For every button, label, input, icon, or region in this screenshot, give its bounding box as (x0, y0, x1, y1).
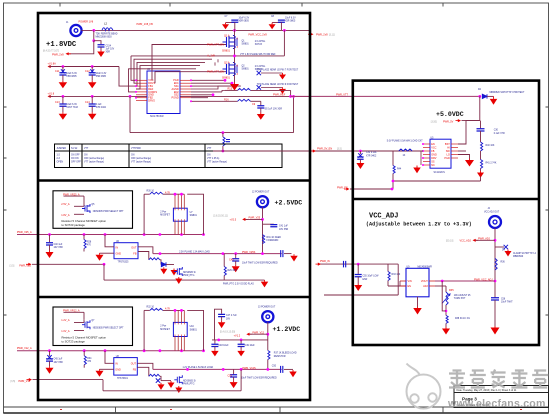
wire - ADJ enable entry (324, 294, 398, 296)
svg-text:SC1175CSW: SC1175CSW (150, 116, 164, 118)
wire - VTT_REF crossing to right column (291, 95, 480, 97)
resistor R29 (223, 254, 225, 267)
svg-text:FB: FB (133, 368, 137, 371)
wire - 1.2V input rail (17, 350, 204, 352)
svg-text:(Adjustable between 1.2V to +3: (Adjustable between 1.2V to +3.3V) (366, 222, 472, 228)
ground - U9 (417, 297, 419, 307)
svg-text:X7R 0402: X7R 0402 (366, 155, 377, 157)
wire - 1.2V output plane (153, 368, 282, 370)
svg-text:VTT (active Range): VTT (active Range) (207, 161, 227, 164)
svg-text:ON OFF: ON OFF (71, 155, 80, 157)
pin U9 VIN (400, 280, 406, 282)
svg-text:RESISTOR: RESISTOR (274, 356, 286, 358)
capacitor C32 (359, 151, 361, 154)
svg-text:R35: R35 (449, 289, 454, 292)
svg-text:1uF 10V: 1uF 10V (106, 49, 115, 51)
pin U9 ADJ (429, 285, 435, 287)
resistor R27 (149, 258, 160, 260)
capacitor C11 (62, 67, 64, 73)
svg-text:+2.5VDC: +2.5VDC (275, 199, 303, 206)
off-page connector PWR_1V8 (right) (310, 33, 313, 36)
ground - output (1.2V) (292, 370, 294, 372)
svg-text:VCC_ADJ: VCC_ADJ (460, 240, 472, 243)
svg-text:PWR_5V_EN: PWR_5V_EN (317, 147, 332, 150)
ground - C12 (91, 81, 93, 83)
svg-text:TANT 7343: TANT 7343 (66, 106, 78, 109)
svg-text:VTT: VTT (207, 148, 212, 150)
svg-text:TP2 PLACE NEAR U2 PIN 9 FOR TE: TP2 PLACE NEAR U2 PIN 9 FOR TEST (257, 83, 299, 86)
pin U10 top (181, 310, 183, 322)
svg-text:1.2V PLANE 1.5A MAX LOAD: 1.2V PLANE 1.5A MAX LOAD (183, 366, 214, 369)
svg-text:5.0V PLANE 0.5A MAX LOAD CKT: 5.0V PLANE 0.5A MAX LOAD CKT (387, 139, 423, 142)
wire - aux vertical links (217, 59, 219, 62)
pin U5 left 5 (423, 157, 430, 159)
svg-text:10uF TANT: 10uF TANT (501, 301, 513, 304)
svg-text:PWR_V12_A: PWR_V12_A (17, 347, 32, 350)
title block (454, 386, 549, 408)
pin U10 bottom (174, 337, 176, 351)
voltage regulator U9 MIC49300 (406, 268, 429, 297)
junction - MOSFET trunk tap (233, 29, 236, 32)
capacitor C50 (series) (281, 366, 283, 373)
resistor R38 (149, 374, 160, 376)
svg-text:SI9801: SI9801 (222, 76, 231, 79)
svg-text:Si9801: Si9801 (242, 68, 250, 70)
svg-text:0.1uF X7R: 0.1uF X7R (494, 133, 505, 135)
wire - sense return loop (1.2V) (33, 379, 104, 381)
ground - C40 (49, 251, 51, 253)
pin 3 U2 left (136, 85, 147, 87)
pin U10 bottom (177, 337, 179, 351)
pin U7 bottom (181, 221, 183, 234)
svg-text:J2 POWER OUT: J2 POWER OUT (252, 192, 270, 194)
wire - MOSFET trunk (234, 30, 236, 82)
node +V1.8A rail (48, 65, 51, 68)
pin U5 left 1 (423, 143, 430, 145)
pin U9 VOUT (429, 280, 435, 282)
wire - gate drive 1 (152, 45, 226, 81)
svg-text:TURN POT: TURN POT (454, 298, 466, 300)
wire - drop to C154 branch (93, 30, 95, 40)
svg-text:+1.2VDC: +1.2VDC (273, 326, 301, 333)
svg-text:R33 100: R33 100 (392, 274, 401, 276)
svg-text:[3,11]: [3,11] (329, 33, 335, 36)
resistor R41 (481, 160, 483, 169)
wire - U2 right pin nets (191, 79, 225, 81)
svg-text:OFF (active Range): OFF (active Range) (84, 157, 104, 160)
diode D4 clamp (495, 246, 504, 248)
pin U7 top (183, 194, 185, 208)
svg-text:www.elecfans.com: www.elecfans.com (447, 398, 546, 410)
svg-text:PWR_VTT: PWR_VTT (336, 93, 348, 96)
svg-text:VIN: VIN (408, 280, 412, 283)
svg-text:L2: L2 (104, 21, 108, 25)
wire - +V1.8 feed to loop (129, 95, 132, 98)
pin U5 right 11 (451, 154, 458, 156)
svg-text:2 N-CHNL: 2 N-CHNL (255, 41, 266, 43)
svg-text:10K ADJUST 25: 10K ADJUST 25 (454, 294, 471, 297)
svg-text:NDS0605 Si: NDS0605 Si (183, 272, 196, 274)
ground - R35/R38 (445, 327, 447, 329)
svg-text:VCC_ADJ: VCC_ADJ (369, 213, 398, 221)
ground - output (293, 254, 295, 256)
ground - C43 (235, 265, 237, 267)
capacitor C14 (91, 96, 93, 103)
svg-text:+V1.8A: +V1.8A (48, 62, 57, 65)
diode D5 (161, 262, 166, 266)
ground - C9 (260, 113, 262, 115)
pin 10 U2 right (180, 82, 191, 84)
option box - resistor/MOSFET option (53, 191, 133, 229)
svg-text:ON: ON (131, 155, 135, 157)
svg-text:PWR_PTG: PWR_PTG (183, 275, 195, 277)
svg-text:[3,5]: [3,5] (10, 264, 15, 267)
wire - VOUT rail (435, 280, 495, 282)
wire - J4 drop (494, 228, 496, 298)
svg-text:JUMPER: JUMPER (57, 148, 67, 150)
svg-text:PWR_IN: PWR_IN (320, 260, 330, 263)
svg-text:[5,4,6,9,10,50]: [5,4,6,9,10,50] (220, 331, 236, 334)
svg-text:C14: C14 (85, 101, 90, 104)
ground - U5 right (469, 159, 471, 161)
svg-text:C40 1uF: C40 1uF (54, 244, 63, 246)
svg-text:VTT (active Range): VTT (active Range) (131, 161, 151, 164)
wire bundle - U2 left pins up (131, 56, 136, 80)
svg-text:PWR_PTG: PWR_PTG (183, 384, 195, 386)
svg-text:SOT23: SOT23 (255, 44, 263, 46)
svg-text:R28: R28 (87, 242, 92, 244)
svg-text:2.5V PLANE 1.3A MAX LOAD: 2.5V PLANE 1.3A MAX LOAD (179, 251, 210, 254)
ground - D2 (493, 96, 495, 99)
ground - U6 (100, 252, 115, 254)
svg-text:[3,8,33,50,11]: [3,8,33,50,11] (213, 215, 228, 218)
wire - VTT plane net (131, 55, 284, 57)
svg-text:PWR_V25S: PWR_V25S (242, 251, 256, 254)
resistor R31 (bleed) (263, 235, 265, 244)
resistor R16 (238, 99, 251, 101)
pin 1 U2 left (136, 79, 147, 81)
svg-text:16V: 16V (226, 318, 231, 320)
svg-text:POWER 1V8: POWER 1V8 (79, 20, 94, 23)
ground - U5 (416, 166, 418, 168)
svg-text:Si9801: Si9801 (190, 215, 198, 217)
svg-text:OUT: OUT (131, 247, 137, 250)
table - voltage option settings (55, 144, 283, 168)
connector J2 +2.5VDC output (257, 196, 268, 207)
svg-text:R30 10: R30 10 (147, 190, 155, 192)
capacitor C52 (233, 369, 235, 374)
op-amp U7 dual MOSFET pack (173, 208, 187, 221)
capacitor C40 (49, 235, 51, 243)
wire - U8 FB (137, 367, 149, 376)
wire - VTT_REF net to right column (290, 90, 292, 96)
svg-text:A_1V8: A_1V8 (207, 55, 215, 58)
svg-text:to SOT23 package: to SOT23 package (62, 223, 86, 227)
svg-text:C45 1uF: C45 1uF (54, 359, 63, 361)
svg-text:VOUT: VOUT (421, 280, 428, 283)
svg-text:R29 49.9: R29 49.9 (228, 270, 238, 272)
svg-text:X5R 0805: X5R 0805 (66, 76, 77, 78)
svg-text:VTT (active Range): VTT (active Range) (84, 161, 104, 164)
svg-text:IN: IN (115, 362, 118, 365)
wire - gate drive 2 (155, 72, 226, 84)
pin U10 bottom (181, 337, 183, 351)
watermark - chinese characters (449, 370, 548, 388)
pin U5 right 10 (451, 150, 458, 152)
svg-text:[50,10]: [50,10] (446, 240, 454, 243)
svg-text:R16: R16 (224, 99, 229, 102)
svg-text:C55 10uF LOW: C55 10uF LOW (363, 276, 380, 278)
svg-text:+V1.8: +V1.8 (48, 92, 55, 95)
pin U10 top (177, 310, 179, 322)
svg-text:C56: C56 (501, 299, 506, 301)
capacitor C44 (series) (281, 250, 283, 257)
svg-text:TPS76301: TPS76301 (117, 378, 129, 380)
ground - U8 (100, 368, 114, 370)
block border - right column (353, 81, 539, 345)
ground - C14 (91, 112, 93, 114)
option box - resistor/MOSFET option (1.2V) (53, 307, 133, 346)
svg-text:R38 30.1K 1%: R38 30.1K 1% (455, 318, 470, 320)
wire - 5V enable feed from block1 (213, 150, 423, 152)
svg-text:OUT: OUT (131, 362, 137, 365)
svg-text:GND: GND (115, 368, 121, 371)
svg-text:Q1 A: Q1 A (224, 34, 230, 37)
svg-text:10uF TANT LOW ESR REQUIRED: 10uF TANT LOW ESR REQUIRED (242, 261, 278, 264)
svg-text:Date: Tuesday, May 27, 20: Date: Tuesday, May 27, 2003 | Rev 1.0 | … (457, 389, 517, 392)
pin U7 bottom (177, 221, 179, 234)
pin U10 top (174, 310, 176, 322)
svg-text:SC1102CS: SC1102CS (434, 172, 446, 174)
wire - divider link (442, 281, 446, 311)
ground - Q6 (178, 277, 180, 279)
pin U5 right 12 (451, 157, 458, 159)
pin 15 U2 right (180, 97, 191, 99)
wire - 2.5V output plane (153, 253, 282, 255)
svg-text:PWR_1V8: PWR_1V8 (316, 33, 328, 36)
connector J1 (power input) (70, 25, 81, 36)
svg-text:10uF 6.3V: 10uF 6.3V (96, 73, 107, 75)
svg-text:PWR_ADJ: PWR_ADJ (478, 238, 491, 241)
svg-text:OFF OFF: OFF OFF (71, 162, 81, 164)
resistor R36 (495, 258, 497, 270)
svg-text:MBR0520 SCHOTTKY PROTECT: MBR0520 SCHOTTKY PROTECT (490, 92, 526, 94)
svg-text:MMZ1608 0603: MMZ1608 0603 (96, 37, 113, 39)
resistor R43 (399, 149, 413, 151)
ground - C48 (214, 349, 216, 351)
pin U5 right 9 (451, 147, 458, 149)
resistor R38 lower divider (446, 315, 448, 323)
junction - cap B tap (283, 29, 286, 32)
svg-text:R37 1K BLEED LOAD: R37 1K BLEED LOAD (274, 352, 297, 355)
ground - D4 (507, 250, 509, 252)
svg-text:10uF 6.3V: 10uF 6.3V (285, 18, 296, 20)
ground - C13 (62, 112, 64, 114)
svg-text:PWR_1V8: PWR_1V8 (52, 54, 64, 57)
pin U7 bottom (174, 221, 176, 234)
voltage regulator U6 TPS76325 (114, 243, 138, 259)
svg-text:J3 POWER OUT: J3 POWER OUT (258, 307, 276, 309)
svg-text:NDS0605 PWR SELECT OPT: NDS0605 PWR SELECT OPT (93, 211, 124, 213)
svg-text:OFF (active Range): OFF (active Range) (131, 157, 151, 160)
pin U5 left 3 (423, 150, 430, 152)
transistor Q5 (option) (82, 204, 90, 213)
potentiometer R35 (446, 292, 448, 305)
junction - bead output (92, 29, 95, 32)
svg-text:OPEN: OPEN (57, 162, 64, 164)
svg-text:TDK FERRITE BEAD: TDK FERRITE BEAD (96, 33, 118, 36)
svg-text:C49 10uF: C49 10uF (245, 345, 256, 347)
svg-text:C30: C30 (494, 130, 499, 132)
svg-text:U10: U10 (190, 326, 195, 328)
svg-text:PGD: PGD (444, 157, 450, 160)
wire - J3 drop with R37 (267, 322, 269, 350)
svg-text:4.7K: 4.7K (165, 192, 170, 195)
svg-text:4.7K: 4.7K (165, 308, 170, 311)
svg-text:1K: 1K (403, 155, 406, 157)
svg-text:X5R 0805: X5R 0805 (96, 76, 107, 78)
ground - D6 (160, 383, 162, 385)
pin U10 bottom (183, 337, 185, 351)
transistor Q2 dual MOSFET (223, 62, 238, 76)
resistor R15 (238, 88, 251, 90)
ground - J4 chain (494, 326, 496, 328)
capacitor C48 (214, 340, 216, 344)
wire - VIN feed (399, 281, 401, 286)
svg-text:to SOT23 package: to SOT23 package (62, 339, 86, 343)
wire - sense return loop (32, 263, 104, 265)
svg-text:PWR_VTT_EN: PWR_VTT_EN (207, 43, 224, 46)
ground - trunk (234, 83, 236, 85)
svg-text:PWR_V25: PWR_V25 (249, 217, 261, 220)
svg-text:PWR_REF: PWR_REF (273, 93, 286, 96)
wire - 2.5V input rail (17, 234, 204, 236)
transistor Q6 power-good (174, 267, 182, 276)
svg-text:X5R: X5R (106, 51, 111, 53)
svg-text:2 Pwr: 2 Pwr (160, 210, 166, 213)
wire - U6 VOUT to 2.5V plane (138, 247, 153, 254)
pin 7 U2 left (136, 97, 147, 99)
pin U7 bottom (183, 221, 185, 234)
wire - to off-page PWR_1V8 (67, 41, 94, 54)
ground - C11 (62, 81, 64, 83)
svg-text:R36: R36 (501, 262, 506, 264)
ground - C52 (233, 381, 235, 383)
ground - C154 (100, 50, 102, 52)
svg-text:C154: C154 (106, 46, 112, 48)
capacitor C13 (62, 96, 64, 103)
pin 14 U2 right (180, 94, 191, 96)
wire - U8 VIN (105, 351, 114, 364)
svg-text:C12: C12 (85, 70, 90, 73)
resistor R33 (387, 264, 389, 271)
wire - U5 right to 5V rail (458, 121, 480, 144)
svg-text:1.2V_A: 1.2V_A (61, 319, 70, 322)
svg-text:R44: R44 (397, 169, 402, 171)
svg-text:+V2.5: +V2.5 (230, 219, 237, 222)
wire - ADJ input rail (318, 263, 398, 265)
ground - D5 (163, 267, 165, 269)
voltage regulator U8 TPS76301 (114, 358, 138, 376)
wire - U6 FB divider (138, 252, 149, 260)
svg-text:C41 1uF: C41 1uF (279, 226, 288, 228)
transistor Q7 (option) (82, 320, 90, 329)
pin 13 U2 right (180, 91, 191, 93)
svg-text:2 Pwr: 2 Pwr (160, 325, 166, 328)
svg-text:IN: IN (116, 247, 119, 250)
svg-text:NDS0605 Si: NDS0605 Si (183, 381, 196, 383)
svg-text:X5R 0805: X5R 0805 (285, 21, 296, 23)
pin U5 left 6 (423, 161, 430, 163)
capacitor C56 (series) (491, 298, 499, 300)
wire - U5 pin links (420, 151, 422, 165)
pin U9 EN (400, 285, 406, 287)
connector J4 VCC_ADJ output (489, 216, 501, 228)
diode D6 (160, 376, 161, 380)
ground - C47 (221, 321, 223, 323)
svg-text:R41 2.74K: R41 2.74K (486, 163, 497, 165)
ground - C45 (49, 366, 51, 368)
svg-text:ADJ: ADJ (423, 285, 428, 288)
pin U5 left 7 (423, 164, 430, 166)
capacitor C12 (91, 67, 93, 73)
svg-text:TPS76325: TPS76325 (118, 262, 130, 264)
svg-text:CLAMP SCHOTTKY A: CLAMP SCHOTTKY A (513, 252, 536, 255)
wire - bottom loop 5V (393, 180, 481, 182)
capacitor C8 (top decoupling) (272, 22, 281, 24)
resistor R32 (144, 309, 150, 311)
ferrite bead L2 (102, 28, 113, 31)
svg-text:VTTPWR: VTTPWR (131, 148, 141, 150)
svg-text:10uF TANT LOW ESR REQUIRED: 10uF TANT LOW ESR REQUIRED (241, 377, 277, 380)
svg-text:10uF 6.3V: 10uF 6.3V (66, 73, 77, 75)
capacitor C7 (top decoupling) (226, 22, 235, 24)
svg-text:GND: GND (116, 253, 122, 256)
ground - aux (1.2V) (170, 381, 172, 383)
svg-text:MBR0520: MBR0520 (513, 256, 524, 258)
svg-text:TP1 PLACE NEAR U2 PIN 7 FOR TE: TP1 PLACE NEAR U2 PIN 7 FOR TEST (257, 69, 299, 72)
svg-text:PWR_V12S: PWR_V12S (242, 367, 256, 370)
svg-text:[3,50]: [3,50] (431, 120, 437, 123)
resistor R28 (83, 235, 85, 240)
wire - ADJ feedback (435, 285, 446, 287)
capacitor C41 (263, 223, 274, 225)
svg-text:C50: C50 (272, 366, 277, 368)
capacitor C9 (260, 101, 262, 105)
svg-text:1.8V_A: 1.8V_A (61, 214, 70, 217)
capacitor C154 (98, 45, 105, 47)
svg-text:NDS0605 PWR SELECT OPT: NDS0605 PWR SELECT OPT (93, 327, 124, 329)
pin 9 U2 right (180, 79, 191, 81)
svg-text:R40 10K: R40 10K (486, 145, 495, 147)
wire - option loop (187, 194, 203, 234)
svg-text:R31 1K FEED: R31 1K FEED (267, 237, 282, 239)
block +1.8VDC regulator section (43, 20, 310, 132)
pin 5 U2 left (136, 91, 147, 93)
resistor R30 (144, 193, 150, 195)
transistor Q1 dual MOSFET (223, 35, 238, 49)
ground - C32 (359, 162, 361, 164)
svg-text:R32 10: R32 10 (147, 307, 155, 309)
pin 12 U2 right (180, 88, 191, 90)
svg-text:0.1uF: 0.1uF (96, 104, 102, 106)
svg-text:FB: FB (133, 253, 137, 256)
watermark - elecfans logo (407, 364, 441, 409)
resistor R44 (392, 151, 394, 166)
connector J3 +1.2VDC output (262, 311, 273, 322)
off-page connector PWR_1V8 (left) (66, 52, 69, 55)
off-page entry ADJ (318, 263, 321, 266)
